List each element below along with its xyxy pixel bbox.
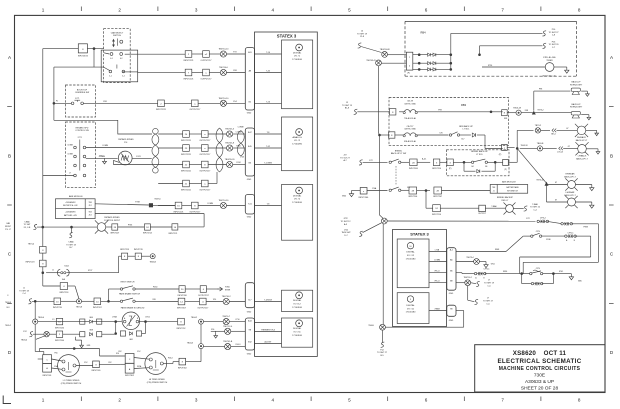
svg-text:TB03-8: TB03-8	[5, 302, 11, 304]
svg-text:F727: F727	[88, 270, 92, 272]
svg-text:3: 3	[195, 398, 198, 403]
svg-text:TO SHT 19: TO SHT 19	[357, 33, 368, 35]
svg-text:OUTPUT217: OUTPUT217	[189, 211, 200, 213]
svg-text:T-BA6: T-BA6	[491, 205, 496, 208]
svg-text:INPUT219: INPUT219	[120, 249, 129, 251]
svg-text:MACHINE CONTROL CIRCUITS: MACHINE CONTROL CIRCUITS	[499, 366, 581, 372]
svg-text:LT56: LT56	[236, 319, 240, 321]
svg-text:+24V ABS/EX: +24V ABS/EX	[65, 211, 76, 214]
svg-text:INPUT206L: INPUT206L	[359, 197, 369, 199]
svg-text:OUTPUT217: OUTPUT217	[201, 78, 212, 80]
svg-text:1: 1	[42, 8, 45, 13]
svg-text:TB0705-8: TB0705-8	[225, 143, 235, 145]
svg-text:TB0710-30: TB0710-30	[218, 200, 229, 202]
svg-text:F92: F92	[108, 362, 111, 364]
svg-text:INPUT301: INPUT301	[43, 375, 52, 377]
svg-text:CB-727: CB-727	[407, 126, 415, 128]
svg-text:5-2: 5-2	[122, 75, 125, 77]
svg-text:67: 67	[566, 128, 568, 130]
svg-text:CPS: CPS	[536, 231, 541, 233]
svg-text:INPUT219: INPUT219	[134, 249, 143, 251]
svg-text:TO SHT 19: TO SHT 19	[484, 283, 495, 285]
svg-text:INPUT208: INPUT208	[178, 295, 187, 297]
svg-text:F741: F741	[136, 156, 140, 158]
svg-text:T-BA6: T-BA6	[68, 241, 73, 244]
svg-text:COMM: COMM	[102, 145, 108, 147]
svg-text:17100180: 17100180	[292, 307, 303, 309]
svg-text:F908: F908	[495, 249, 499, 251]
svg-text:TO SHT 18: TO SHT 18	[19, 290, 29, 292]
svg-text:ABS MODULE: ABS MODULE	[69, 195, 83, 198]
svg-text:TB4-B: TB4-B	[368, 325, 374, 327]
svg-text:I/O #2: I/O #2	[294, 140, 301, 142]
svg-text:J1: J1	[52, 269, 54, 271]
svg-text:B-7: B-7	[462, 139, 465, 141]
svg-text:BOOST UP: BOOST UP	[77, 89, 88, 91]
svg-text:CPS-2: CPS-2	[540, 218, 547, 220]
svg-text:F98: F98	[525, 110, 528, 112]
svg-text:REST SWITCH: REST SWITCH	[121, 282, 135, 284]
svg-text:6: 6	[425, 8, 428, 13]
svg-text:B-7: B-7	[70, 247, 73, 249]
svg-text:BK-4: BK-4	[551, 134, 555, 136]
svg-text:DIGITAL: DIGITAL	[406, 304, 415, 307]
svg-text:(P): (P)	[504, 169, 507, 171]
svg-text:17100280: 17100280	[292, 144, 303, 146]
svg-text:F1A BOOS AL: F1A BOOS AL	[404, 140, 416, 143]
svg-text:CPS: CPS	[536, 268, 541, 270]
svg-text:INPUT302: INPUT302	[125, 375, 134, 377]
svg-text:T1A BOOS AL: T1A BOOS AL	[404, 117, 416, 120]
svg-text:INPUT2221: INPUT2221	[184, 60, 194, 62]
svg-text:(P): (P)	[407, 73, 410, 75]
svg-text:(SLKT 23) C-31: (SLKT 23) C-31	[542, 76, 555, 78]
svg-text:INPUT2221: INPUT2221	[184, 78, 194, 80]
svg-text:F98: F98	[233, 70, 236, 72]
svg-text:GND: GND	[247, 112, 252, 114]
svg-text:RETARD SPEED: RETARD SPEED	[118, 138, 134, 141]
svg-text:F56: F56	[211, 329, 214, 331]
svg-text:(P): (P)	[499, 154, 502, 156]
svg-text:ELECTRICAL SCHEMATIC: ELECTRICAL SCHEMATIC	[497, 358, 581, 365]
svg-text:(CW) PRESS SWITCH: (CW) PRESS SWITCH	[147, 382, 168, 384]
svg-text:DIGITAL: DIGITAL	[293, 194, 302, 197]
svg-text:RB3: RB3	[461, 103, 467, 107]
svg-text:5: 5	[348, 398, 351, 403]
svg-text:COMM: COMM	[207, 203, 213, 205]
svg-text:6-2: 6-2	[120, 58, 123, 60]
svg-text:A-DL: A-DL	[422, 158, 426, 161]
svg-text:+24V ABS/EX: +24V ABS/EX	[65, 201, 76, 204]
svg-text:6: 6	[425, 398, 428, 403]
svg-text:J1/2: J1/2	[88, 215, 91, 217]
svg-text:T-BA6: T-BA6	[532, 203, 538, 206]
svg-text:F56-3: F56-3	[168, 358, 173, 360]
svg-text:OUTPUT217: OUTPUT217	[199, 154, 210, 156]
svg-text:CPS-1: CPS-1	[568, 232, 575, 234]
svg-text:8: 8	[578, 398, 581, 403]
svg-text:INPUT2221: INPUT2221	[181, 140, 191, 142]
svg-text:RED LT: RED LT	[502, 200, 510, 202]
svg-text:TB05-B: TB05-B	[149, 262, 156, 264]
svg-text:TIMER: TIMER	[546, 60, 553, 62]
svg-text:GND: GND	[247, 312, 252, 314]
svg-text:RETARD SPD: RETARD SPD	[76, 126, 89, 129]
svg-text:TO SHT 20: TO SHT 20	[548, 44, 559, 46]
svg-text:I/O #12: I/O #12	[407, 255, 415, 257]
svg-text:B: B	[137, 318, 138, 320]
svg-text:CAB SELECT: CAB SELECT	[111, 31, 124, 34]
svg-text:V26: V26	[152, 299, 155, 301]
svg-text:INPUT302: INPUT302	[178, 368, 187, 370]
svg-text:I/O #12: I/O #12	[294, 304, 302, 306]
svg-text:STBR: STBR	[225, 289, 231, 291]
svg-text:F98: F98	[539, 89, 542, 91]
svg-text:J7: J7	[69, 172, 71, 174]
svg-text:TO SHT 27: TO SHT 27	[548, 32, 559, 34]
svg-text:TB73-2: TB73-2	[537, 109, 543, 111]
svg-text:TB8: TB8	[89, 202, 92, 204]
svg-text:GND: GND	[247, 354, 252, 356]
svg-text:A-DIGIT: A-DIGIT	[265, 340, 273, 343]
svg-text:TB05-2: TB05-2	[5, 325, 11, 327]
svg-text:2: 2	[118, 398, 121, 403]
svg-text:F72: F72	[369, 160, 372, 162]
svg-text:INPUT2221: INPUT2221	[181, 189, 191, 191]
svg-text:INPUT210: INPUT210	[432, 168, 441, 170]
svg-text:LT SOL: LT SOL	[463, 129, 471, 131]
svg-text:1: 1	[42, 398, 45, 403]
svg-text:INPUT218: INPUT218	[59, 292, 68, 294]
svg-text:INPUT292: INPUT292	[177, 328, 186, 330]
svg-text:LO TIRED SPEED: LO TIRED SPEED	[63, 380, 80, 382]
svg-text:P.S. LT: P.S. LT	[5, 229, 12, 231]
svg-text:INPUT207: INPUT207	[110, 233, 119, 235]
svg-text:CNTRL GND: CNTRL GND	[404, 103, 416, 105]
svg-text:RH/REAR: RH/REAR	[565, 173, 575, 176]
svg-text:GB4: GB4	[89, 317, 93, 319]
svg-text:INPUT2221: INPUT2221	[174, 211, 184, 213]
svg-text:TB03-B: TB03-B	[537, 143, 544, 145]
svg-text:SWITCH: SWITCH	[113, 35, 121, 37]
svg-text:OVERRIDE SW: OVERRIDE SW	[75, 92, 89, 94]
svg-text:TB0703-48: TB0703-48	[380, 49, 391, 51]
svg-text:LH/REAR: LH/REAR	[566, 191, 575, 194]
svg-text:STATEX 3: STATEX 3	[410, 232, 429, 237]
svg-text:BACK-UP: BACK-UP	[572, 103, 582, 106]
svg-text:TB0710-2: TB0710-2	[222, 296, 232, 298]
svg-text:I/O #2: I/O #2	[294, 199, 301, 201]
svg-text:STATEX 3: STATEX 3	[277, 34, 297, 39]
svg-text:PARK BRAKE SWITCH: PARK BRAKE SWITCH	[119, 292, 141, 295]
svg-text:(P): (P)	[449, 168, 452, 170]
svg-text:B6: B6	[485, 166, 487, 168]
svg-text:LH/BACK: LH/BACK	[578, 155, 587, 158]
svg-text:DIGITAL: DIGITAL	[293, 327, 302, 330]
svg-text:GND: GND	[247, 179, 252, 181]
svg-text:F741: F741	[559, 271, 563, 273]
svg-text:INPUT207: INPUT207	[93, 307, 102, 309]
svg-text:F936: F936	[546, 239, 550, 241]
svg-text:OUTPUT217: OUTPUT217	[189, 109, 200, 111]
svg-text:B: B	[610, 154, 613, 159]
svg-text:GND: GND	[449, 320, 454, 322]
svg-text:OUTPUT217: OUTPUT217	[198, 295, 209, 297]
svg-text:F748: F748	[135, 201, 139, 203]
svg-text:<P6-L>: <P6-L>	[434, 280, 441, 283]
svg-text:J743: J743	[240, 157, 244, 159]
svg-text:COMM: COMM	[67, 153, 73, 155]
svg-text:67: 67	[568, 146, 570, 148]
svg-text:J1: J1	[23, 288, 25, 290]
svg-text:TB8: TB8	[492, 187, 495, 189]
svg-text:GB8: GB8	[89, 330, 93, 332]
svg-text:F12: F12	[23, 331, 26, 333]
svg-text:T-DIG/08: T-DIG/08	[264, 299, 272, 301]
svg-text:I/O #11: I/O #11	[294, 332, 302, 334]
svg-text:SHEET 20 OF 28: SHEET 20 OF 28	[521, 385, 559, 391]
svg-text:BACK-UP LT: BACK-UP LT	[564, 175, 576, 178]
svg-text:17100180: 17100180	[292, 335, 303, 337]
svg-text:INPUT305: INPUT305	[92, 370, 101, 372]
svg-text:67: 67	[555, 182, 557, 184]
svg-text:BRN/BL: BRN/BL	[395, 150, 403, 152]
svg-text:I/O #1: I/O #1	[294, 56, 301, 58]
svg-text:LT5B: LT5B	[435, 249, 440, 251]
svg-text:COMM: COMM	[67, 144, 73, 146]
svg-text:INPUT233: INPUT233	[53, 307, 62, 309]
svg-text:(CW) PRESS SWITCH: (CW) PRESS SWITCH	[61, 383, 82, 385]
svg-text:OUTPUT217: OUTPUT217	[199, 170, 210, 172]
svg-text:BATTERY/ABS: BATTERY/ABS	[506, 186, 519, 189]
svg-text:TB73-10: TB73-10	[536, 180, 543, 182]
svg-text:GB5: GB5	[578, 281, 582, 283]
svg-text:TB0710-10: TB0710-10	[218, 98, 229, 100]
svg-text:TB0710-2: TB0710-2	[464, 277, 472, 279]
svg-text:C-4: C-4	[22, 293, 25, 295]
svg-text:LOC-B: LOC-B	[557, 152, 564, 154]
svg-text:TB4: TB4	[89, 212, 92, 214]
svg-text:INPUT206: INPUT206	[408, 196, 417, 198]
svg-text:T-16: T-16	[266, 52, 270, 54]
svg-text:TB73-2: TB73-2	[535, 125, 542, 127]
svg-text:6-1: 6-1	[110, 58, 113, 60]
svg-text:INPUT2221: INPUT2221	[156, 109, 166, 111]
svg-text:OUTPUT217: OUTPUT217	[197, 308, 208, 310]
svg-text:FRONT: FRONT	[5, 226, 12, 228]
svg-text:BATT/GND +24V: BATT/GND +24V	[64, 214, 78, 217]
svg-text:INPUT221: INPUT221	[168, 233, 177, 235]
svg-text:F72: F72	[233, 52, 236, 54]
svg-text:TB0703-41: TB0703-41	[366, 60, 375, 62]
svg-text:4: 4	[272, 398, 275, 403]
svg-text:TB73-8: TB73-8	[76, 307, 82, 309]
svg-text:TB073-4: TB073-4	[466, 257, 473, 259]
svg-text:17100180: 17100180	[292, 59, 303, 61]
svg-text:V20: V20	[213, 299, 216, 301]
svg-text:ABS MODULE: ABS MODULE	[502, 181, 516, 184]
svg-text:F771: F771	[75, 98, 79, 100]
svg-text:F98: F98	[438, 109, 441, 111]
svg-text:CPS-1: CPS-1	[484, 268, 491, 270]
svg-text:KEYSWITCH: KEYSWITCH	[507, 190, 518, 192]
svg-text:TB03-18: TB03-18	[521, 145, 528, 147]
svg-text:INPUT2074: INPUT2074	[78, 56, 88, 58]
svg-text:RB4: RB4	[420, 31, 426, 35]
svg-text:F5, C-B: F5, C-B	[24, 227, 31, 229]
svg-text:F743: F743	[236, 146, 240, 148]
svg-text:TO SHT 22: TO SHT 22	[530, 207, 541, 209]
svg-text:5-1: 5-1	[109, 75, 112, 77]
svg-text:P.U.: P.U.	[124, 142, 128, 144]
svg-text:INPUT207: INPUT207	[433, 196, 442, 198]
svg-text:730E: 730E	[534, 372, 545, 378]
svg-text:F10: F10	[116, 353, 119, 355]
svg-text:XS8620 OCT 11: XS8620 OCT 11	[513, 350, 567, 357]
svg-text:T-45: T-45	[266, 70, 270, 72]
svg-text:TB0705-20: TB0705-20	[225, 159, 236, 161]
svg-text:F54: F54	[233, 101, 236, 103]
svg-text:4: 4	[272, 8, 275, 13]
svg-text:CB-T8: CB-T8	[407, 101, 414, 103]
svg-text:PARK BRAKE SOLENOID: PARK BRAKE SOLENOID	[121, 306, 145, 309]
svg-text:T-8: T-8	[267, 203, 270, 205]
svg-text:2: 2	[118, 8, 121, 13]
svg-text:F1: F1	[56, 101, 58, 103]
svg-text:TO SHT 12: TO SHT 12	[340, 221, 351, 223]
svg-text:B: B	[8, 154, 11, 159]
svg-text:ANALOG: ANALOG	[293, 136, 302, 139]
svg-text:BRN/BL BACKUP: BRN/BL BACKUP	[497, 196, 514, 199]
svg-text:BACK-UP: BACK-UP	[572, 81, 582, 84]
svg-text:INPUT240: INPUT240	[55, 327, 64, 329]
svg-text:7: 7	[501, 8, 504, 13]
svg-text:F56: F56	[54, 352, 57, 354]
svg-text:OUTPUT217: OUTPUT217	[199, 140, 210, 142]
svg-text:TO SLT 27: TO SLT 27	[340, 157, 350, 159]
svg-text:A30633 & UP: A30633 & UP	[525, 379, 554, 385]
svg-text:F260: F260	[153, 287, 157, 289]
svg-text:GN1: GN1	[491, 264, 495, 266]
svg-text:HORN/LIGHT: HORN/LIGHT	[570, 107, 583, 109]
svg-text:OUTPUT217: OUTPUT217	[199, 189, 210, 191]
svg-text:J1: J1	[493, 191, 495, 193]
svg-text:GND: GND	[247, 217, 252, 219]
svg-text:KEYSWITCH +24V: KEYSWITCH +24V	[63, 205, 78, 207]
svg-text:J74A: J74A	[372, 187, 377, 190]
svg-text:F72: F72	[526, 218, 529, 220]
svg-text:BRN/BL BACK-UP: BRN/BL BACK-UP	[471, 150, 488, 153]
svg-text:T-42: T-42	[266, 146, 270, 148]
svg-text:3: 3	[195, 8, 198, 13]
svg-text:F92: F92	[118, 351, 121, 353]
svg-text:8: 8	[578, 8, 581, 13]
svg-text:DIGITAL: DIGITAL	[293, 51, 302, 54]
svg-text:TB03-4: TB03-4	[21, 339, 27, 341]
svg-text:TB070-7: TB070-7	[222, 316, 231, 318]
svg-text:17100180: 17100180	[406, 312, 417, 314]
svg-text:TO SHT 27: TO SHT 27	[377, 352, 388, 354]
svg-text:I/O #11: I/O #11	[407, 308, 415, 310]
svg-text:TO SHT 19: TO SHT 19	[342, 105, 353, 107]
svg-text:HI TIRED SPEED: HI TIRED SPEED	[149, 379, 165, 381]
svg-text:GND: GND	[449, 293, 454, 295]
svg-text:F726: F726	[488, 65, 492, 67]
svg-text:THIS SHT: THIS SHT	[341, 232, 351, 234]
svg-text:TB47-6: TB47-6	[154, 199, 160, 201]
svg-text:7: 7	[501, 398, 504, 403]
svg-text:DIGITAL: DIGITAL	[293, 299, 302, 302]
svg-text:TB0701-B: TB0701-B	[223, 341, 233, 343]
svg-text:17100180: 17100180	[406, 258, 417, 260]
svg-text:INPUT240: INPUT240	[55, 340, 64, 342]
svg-text:TB03-18: TB03-18	[513, 107, 522, 109]
svg-text:T-BA6: T-BA6	[24, 220, 29, 223]
svg-text:INPUT2221: INPUT2221	[181, 170, 191, 172]
svg-text:TO SHT 18: TO SHT 18	[66, 244, 76, 246]
svg-text:T-8: T-8	[267, 132, 270, 134]
svg-text:DIGITAL: DIGITAL	[406, 251, 415, 254]
svg-text:(TV)B: (TV)B	[112, 316, 117, 318]
svg-text:INPUT214: INPUT214	[143, 233, 152, 235]
svg-text:X104: X104	[64, 265, 68, 267]
svg-text:T-26: T-26	[266, 101, 270, 103]
svg-text:#9B08: #9B08	[434, 308, 439, 310]
svg-text:TB0710-10: TB0710-10	[218, 49, 229, 51]
svg-text:INPUT214: INPUT214	[432, 214, 441, 216]
svg-text:GND: GND	[342, 196, 347, 198]
svg-text:TB09-4: TB09-4	[38, 317, 44, 319]
svg-text:TB071C-4: TB071C-4	[223, 326, 233, 328]
svg-text:STRL-BL-DBL: STRL-BL-DBL	[543, 57, 557, 59]
svg-text:CONTROL SW: CONTROL SW	[75, 130, 89, 132]
svg-text:CNTRL GND: CNTRL GND	[404, 129, 416, 131]
svg-text:B-3: B-3	[7, 307, 10, 309]
svg-text:5: 5	[348, 8, 351, 13]
svg-text:F1: F1	[52, 319, 54, 321]
svg-text:RH/BACK: RH/BACK	[577, 136, 587, 139]
svg-text:570: 570	[439, 133, 442, 135]
svg-text:BRN BACK UP: BRN BACK UP	[459, 125, 473, 128]
svg-text:BACK-UP LT: BACK-UP LT	[576, 157, 588, 160]
svg-text:F771: F771	[78, 137, 82, 139]
svg-text:F98: F98	[504, 118, 507, 120]
svg-text:J1/2: J1/2	[88, 205, 91, 207]
svg-text:V2C6: V2C6	[145, 316, 150, 318]
svg-text:67: 67	[555, 200, 557, 202]
svg-text:B4: B4	[472, 166, 474, 168]
svg-text:F988: F988	[583, 226, 587, 228]
svg-text:TB0705-3: TB0705-3	[225, 129, 235, 131]
svg-text:COMM: COMM	[434, 259, 440, 261]
svg-text:TB73-4: TB73-4	[28, 243, 34, 245]
svg-text:OUTPUT: OUTPUT	[478, 213, 487, 215]
svg-text:COMM: COMM	[236, 132, 242, 134]
svg-text:INPUT223: INPUT223	[26, 261, 35, 263]
svg-text:TB0710-6: TB0710-6	[219, 67, 229, 69]
svg-text:GB1: GB1	[129, 339, 133, 341]
svg-text:HORN/LIGHT: HORN/LIGHT	[570, 85, 583, 87]
svg-text:F736: F736	[128, 225, 132, 227]
svg-text:17100180: 17100180	[292, 202, 303, 204]
svg-text:OUTPUT217: OUTPUT217	[201, 60, 212, 62]
svg-text:THERMISTOR-3: THERMISTOR-3	[261, 329, 275, 331]
svg-text:F56-3: F56-3	[236, 344, 241, 346]
svg-text:F936: F936	[503, 271, 507, 273]
svg-text:TB04-3: TB04-3	[187, 343, 193, 345]
svg-text:INPUT2221: INPUT2221	[181, 154, 191, 156]
svg-text:<P6-L>: <P6-L>	[434, 270, 441, 273]
